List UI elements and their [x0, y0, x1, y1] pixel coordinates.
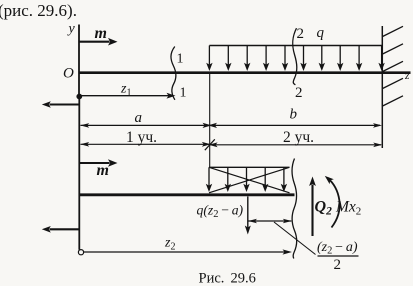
wall fixed support line — [381, 26, 383, 148]
beam section 2 — [80, 193, 295, 196]
section mark 2 squiggle — [293, 28, 297, 85]
reaction arrow left (top) — [42, 101, 79, 108]
svg-text:a: a — [135, 110, 143, 126]
svg-text:q(z2 − a): q(z2 − a) — [197, 203, 244, 221]
y axis — [78, 25, 80, 98]
wall hatching — [383, 26, 403, 106]
load block diagonal 2 — [209, 167, 290, 193]
dimension b — [208, 123, 382, 128]
svg-text:Mx2: Mx2 — [335, 199, 361, 218]
shear force Q2 arrow — [309, 177, 316, 237]
dimension 2 уч — [209, 142, 383, 147]
svg-text:2: 2 — [295, 85, 303, 101]
svg-text:29.6: 29.6 — [231, 271, 256, 286]
distributed load q arrows — [206, 46, 385, 72]
dimension 1 уч — [80, 142, 211, 147]
moment arrow m (top) — [79, 38, 118, 46]
origin dot — [76, 94, 82, 100]
extension line at load left edge — [209, 74, 211, 167]
z2 origin circle — [78, 250, 83, 255]
svg-text:z: z — [404, 70, 410, 82]
svg-text:1 уч.: 1 уч. — [126, 129, 157, 146]
z1 arrow — [81, 93, 176, 99]
dimension (z2-a)/2 arrow — [248, 219, 292, 224]
fraction (z2-a)/2 — [317, 240, 359, 273]
junction tick slash — [205, 139, 215, 150]
equivalent load arrows — [206, 167, 287, 192]
svg-text:b: b — [290, 106, 298, 122]
svg-text:(рис. 29.6).: (рис. 29.6). — [0, 1, 77, 20]
svg-text:O: O — [63, 65, 74, 81]
svg-text:y: y — [67, 22, 76, 37]
svg-text:(z2 − a): (z2 − a) — [317, 240, 358, 257]
moment arrow m (lower) — [80, 159, 118, 167]
leader line to fraction — [274, 222, 316, 255]
moment arc Mx2 — [325, 176, 340, 228]
left vertical extension line — [78, 97, 80, 250]
svg-text:Q2: Q2 — [315, 199, 333, 218]
reaction arrow left (lower) — [42, 226, 80, 233]
load block diagonal 1 — [209, 167, 290, 193]
caption Рис. 29.6 — [199, 271, 256, 286]
equivalent load block top line — [209, 166, 290, 168]
section mark 1 squiggle — [171, 47, 176, 100]
svg-text:2: 2 — [334, 257, 342, 273]
svg-text:q: q — [317, 25, 325, 41]
svg-text:Рис.: Рис. — [199, 271, 225, 286]
resultant force arrow — [245, 197, 251, 235]
svg-text:2: 2 — [297, 26, 305, 42]
svg-text:1: 1 — [177, 52, 184, 67]
dimension a — [80, 123, 211, 128]
svg-text:z1: z1 — [120, 82, 131, 99]
cut squiggle at section 2 — [292, 159, 297, 259]
svg-text:2 уч.: 2 уч. — [283, 129, 314, 146]
svg-text:1: 1 — [180, 86, 187, 101]
distributed load q top line — [209, 45, 382, 47]
svg-text:m: m — [95, 25, 107, 42]
beam section 1 with z axis — [79, 71, 411, 74]
svg-text:z2: z2 — [164, 236, 175, 253]
dimension z2 — [84, 249, 292, 254]
svg-text:m: m — [97, 162, 109, 179]
